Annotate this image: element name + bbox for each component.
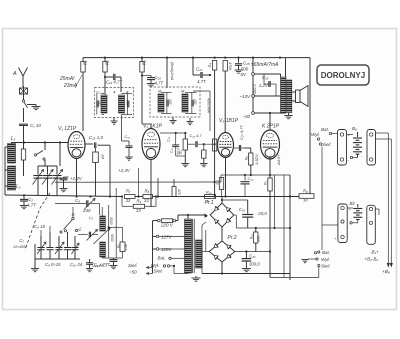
svg-text:C₁₂ 4,7T: C₁₂ 4,7T — [94, 263, 110, 268]
svg-text:R₂: R₂ — [105, 60, 110, 65]
svg-text:5000: 5000 — [110, 234, 114, 242]
svg-text:100: 100 — [168, 99, 172, 105]
svg-text:R₉: R₉ — [137, 199, 142, 204]
svg-text:5,1k: 5,1k — [124, 244, 128, 251]
svg-text:4,7T: 4,7T — [197, 79, 206, 84]
svg-text:4': 4' — [113, 90, 116, 95]
svg-text:33: 33 — [126, 198, 131, 203]
svg-text:R₈: R₈ — [145, 189, 150, 194]
svg-text:120V: 120V — [161, 247, 173, 252]
svg-text:127V: 127V — [161, 235, 173, 240]
svg-text:500: 500 — [241, 67, 249, 72]
svg-text:Bż: Bż — [350, 201, 356, 206]
svg-text:1M: 1M — [101, 154, 105, 159]
svg-text:Bₐ: Bₐ — [352, 126, 357, 131]
svg-text:100: 100 — [193, 99, 197, 105]
svg-text:C₃₀: C₃₀ — [248, 177, 254, 181]
svg-text:130: 130 — [126, 100, 130, 106]
svg-text:C₇: C₇ — [19, 238, 24, 243]
svg-text:R₄: R₄ — [207, 63, 212, 68]
svg-text:R₁₂: R₁₂ — [250, 233, 254, 239]
svg-text:R₇: R₇ — [264, 180, 268, 185]
svg-text:Sieć: Sieć — [128, 263, 138, 268]
svg-text:12×495: 12×495 — [13, 245, 27, 249]
svg-text:0,1: 0,1 — [215, 180, 219, 185]
svg-text:C₈: C₈ — [75, 198, 80, 203]
svg-text:R₆: R₆ — [179, 149, 183, 154]
svg-text:4': 4' — [126, 90, 129, 95]
svg-text:C₂₅: C₂₅ — [167, 136, 171, 142]
svg-text:470k: 470k — [228, 62, 232, 71]
svg-text:R₆: R₆ — [245, 156, 249, 161]
svg-text:Bat.: Bat. — [322, 250, 330, 255]
svg-text:5000: 5000 — [109, 217, 113, 225]
svg-text:240: 240 — [82, 208, 91, 213]
svg-text:-B₁+: -B₁+ — [370, 250, 379, 255]
svg-text:33: 33 — [136, 208, 141, 213]
svg-text:+2,4V: +2,4V — [118, 168, 131, 173]
svg-text:4,7T: 4,7T — [155, 81, 164, 86]
svg-text:+Bₐ: +Bₐ — [382, 269, 390, 275]
svg-text:V₁ 1Ż1P: V₁ 1Ż1P — [58, 125, 77, 132]
svg-text:150: 150 — [257, 235, 261, 242]
svg-text:A: A — [12, 71, 17, 77]
svg-text:Sieć: Sieć — [321, 264, 331, 269]
svg-text:C₃₁: C₃₁ — [239, 207, 246, 212]
svg-text:1K: 1K — [303, 198, 308, 203]
svg-text:C₉ 0÷15: C₉ 0÷15 — [45, 262, 61, 267]
svg-text:(6mA)2mA: (6mA)2mA — [170, 62, 174, 81]
svg-text:R₃: R₃ — [142, 60, 147, 65]
svg-text:A4,5+: A4,5+ — [276, 154, 281, 166]
svg-text:+B₂-B₀: +B₂-B₀ — [365, 257, 379, 262]
svg-text:C₂₁: C₂₁ — [170, 148, 174, 153]
svg-text:C₁₀ 24: C₁₀ 24 — [70, 262, 83, 267]
svg-text:~50: ~50 — [129, 270, 137, 275]
svg-text:+40/1,2: +40/1,2 — [253, 84, 257, 96]
svg-text:+1,2V: +1,2V — [70, 176, 83, 181]
svg-text:130: 130 — [97, 100, 101, 106]
svg-text:-20,0: -20,0 — [257, 211, 267, 216]
svg-text:300,0: 300,0 — [249, 262, 260, 267]
svg-text:Wył.: Wył. — [311, 132, 320, 137]
svg-text:~13V: ~13V — [239, 94, 251, 99]
svg-text:C₂₇ 4,7T: C₂₇ 4,7T — [239, 125, 244, 140]
svg-text:C₂₈: C₂₈ — [243, 61, 250, 66]
svg-text:±65mA/7mA: ±65mA/7mA — [251, 62, 279, 68]
svg-text:R₉: R₉ — [116, 243, 120, 248]
svg-text:23mA: 23mA — [63, 83, 78, 89]
svg-text:470: 470 — [177, 189, 181, 195]
svg-text:C₂₉: C₂₉ — [262, 75, 269, 80]
svg-text:C₃₂: C₃₂ — [249, 254, 256, 259]
svg-text:L₃: L₃ — [89, 215, 93, 220]
svg-text:C₂₂: C₂₂ — [196, 67, 203, 72]
svg-text:K 2P1P: K 2P1P — [262, 124, 280, 130]
svg-text:1,5ΣV: 1,5ΣV — [254, 154, 259, 165]
svg-text:C₁₆: C₁₆ — [125, 135, 131, 139]
svg-text:C₁₅ 1,0: C₁₅ 1,0 — [89, 135, 103, 140]
svg-text:~30: ~30 — [242, 114, 250, 119]
svg-text:25mA/: 25mA/ — [59, 76, 75, 82]
svg-text:Sieć: Sieć — [154, 269, 164, 274]
svg-text:C₂: C₂ — [28, 197, 33, 202]
svg-text:DOROLNYJ: DOROLNYJ — [321, 71, 365, 80]
svg-text:40/0,4mA: 40/0,4mA — [207, 98, 211, 114]
svg-text:C₂₄ 4,7: C₂₄ 4,7 — [190, 134, 203, 138]
svg-text:Rₐ: Rₐ — [303, 189, 308, 194]
svg-text:V₃ 1B1P: V₃ 1B1P — [219, 118, 239, 124]
svg-text:33: 33 — [144, 198, 149, 203]
svg-text:L₂: L₂ — [16, 184, 21, 190]
svg-text:Bat.: Bat. — [158, 256, 166, 261]
svg-text:Pr.1: Pr.1 — [205, 200, 214, 206]
svg-text:C₁ 10: C₁ 10 — [30, 123, 41, 128]
svg-text:220 V: 220 V — [160, 223, 174, 228]
svg-text:Wył.: Wył. — [321, 257, 330, 262]
svg-text:C₁₄ 4,7T: C₁₄ 4,7T — [106, 80, 122, 85]
svg-text:Pr.2: Pr.2 — [228, 235, 237, 241]
svg-text:Bat.: Bat. — [321, 127, 329, 132]
svg-text:4,7T: 4,7T — [27, 203, 37, 208]
svg-text:C₈ 18: C₈ 18 — [34, 224, 45, 229]
svg-text:L₁: L₁ — [11, 136, 16, 142]
svg-text:R₁₃: R₁₃ — [206, 191, 212, 195]
svg-text:Sieć: Sieć — [322, 142, 332, 147]
svg-text:R₇: R₇ — [126, 189, 131, 194]
svg-text:C₂₀: C₂₀ — [155, 75, 162, 80]
svg-text:C₁₇: C₁₇ — [96, 91, 102, 95]
